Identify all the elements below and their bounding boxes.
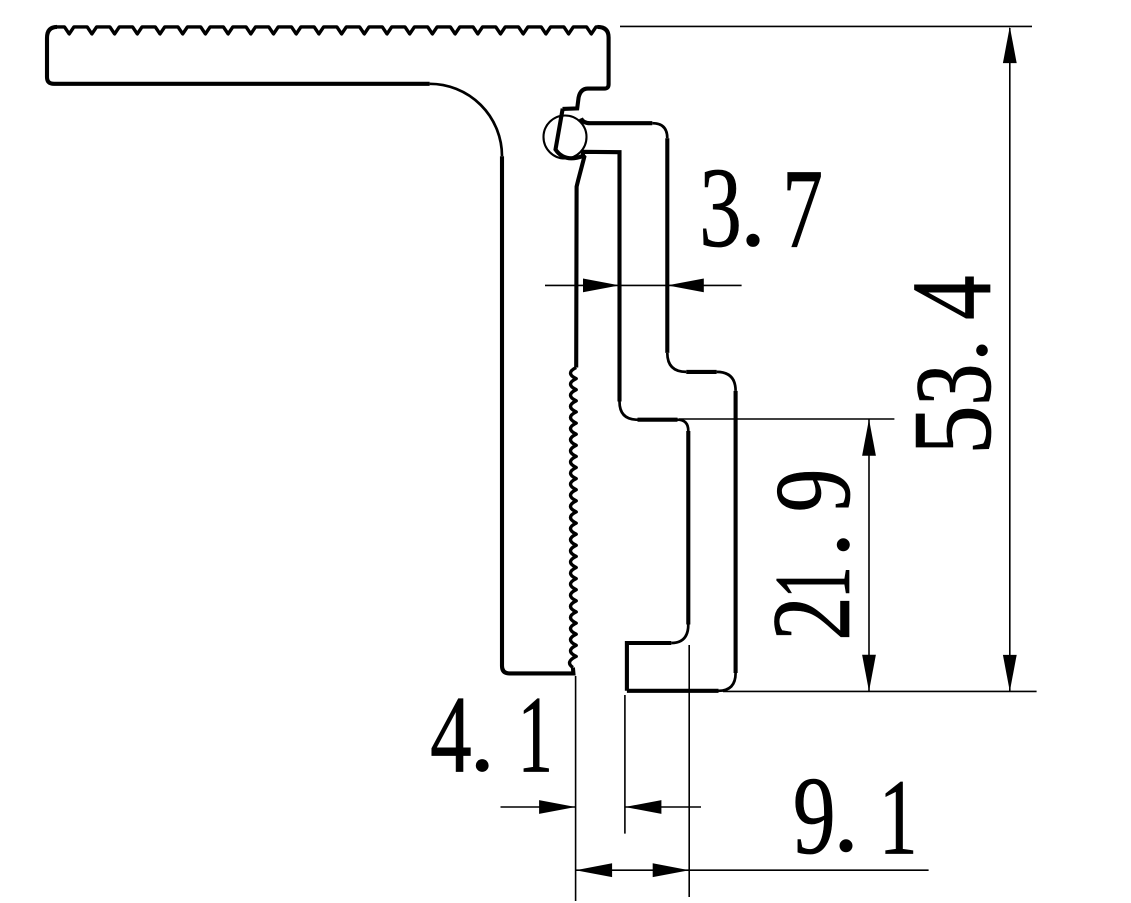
fillet inner step upper	[620, 402, 638, 420]
svg-text:1: 1	[879, 758, 918, 878]
svg-text:1: 1	[751, 566, 873, 598]
fillet inner step lower	[678, 420, 689, 431]
arrow 9.1 left	[576, 863, 613, 877]
extension line left leg	[575, 676, 577, 901]
svg-text:4: 4	[888, 275, 1015, 320]
dim line 53.4	[1009, 28, 1011, 691]
dim line 4.1 right	[625, 806, 701, 808]
right edge lower	[734, 391, 738, 673]
svg-text:7: 7	[782, 146, 823, 272]
extension line bottom	[723, 690, 1037, 692]
fillet foot bottom right	[719, 673, 736, 691]
arrow 21.9 top	[862, 419, 876, 456]
arrow 4.1 right	[625, 800, 662, 814]
arrow 53.4 top	[1003, 27, 1017, 64]
arm right edge upper	[665, 138, 669, 353]
knurled top edge of bar	[57, 27, 598, 34]
dim line 3.7	[545, 284, 742, 286]
bead circle	[544, 116, 587, 159]
dim line 9.1	[576, 869, 929, 871]
svg-text:3: 3	[699, 144, 742, 271]
fillet right step outer	[717, 372, 736, 391]
dim line 21.9	[868, 420, 870, 692]
fillet arm top right	[652, 123, 667, 138]
bar left end	[47, 27, 430, 84]
inner left edge	[583, 152, 620, 402]
inner step edge	[638, 418, 678, 422]
svg-text:9: 9	[793, 754, 836, 878]
svg-text:3: 3	[893, 364, 1014, 406]
extension line 21.9 top	[679, 418, 894, 420]
serrated right edge of leg	[570, 368, 577, 668]
inner right edge	[686, 431, 690, 625]
fillet right step upper	[667, 353, 686, 372]
arrow 53.4 bottom	[1003, 655, 1017, 692]
leg edge top and bead	[556, 109, 585, 368]
svg-text:1: 1	[518, 674, 553, 796]
svg-text:9: 9	[754, 469, 873, 513]
svg-text:5: 5	[891, 405, 1015, 455]
foot bottom edge	[627, 689, 719, 693]
top bar right notch	[563, 27, 609, 109]
arrow 9.1 right	[653, 863, 690, 877]
arrow 21.9 bottom	[862, 655, 876, 692]
arm top edge	[581, 118, 652, 123]
arrow 4.1 left	[539, 800, 576, 814]
foot left edge	[627, 643, 671, 691]
left leg	[502, 156, 573, 673]
arrow 3.7 right	[667, 279, 704, 293]
svg-text:4: 4	[430, 673, 472, 796]
svg-text:2: 2	[750, 596, 874, 641]
fillet foot top inner	[671, 625, 688, 644]
arrow 3.7 left	[583, 279, 620, 293]
step top edge	[686, 370, 716, 374]
dim line 4.1 left	[501, 806, 576, 808]
fillet bar to leg	[430, 84, 502, 156]
extension line foot inner	[688, 645, 690, 897]
extension line foot left	[624, 695, 626, 834]
extension line top 53.4	[620, 25, 1032, 27]
